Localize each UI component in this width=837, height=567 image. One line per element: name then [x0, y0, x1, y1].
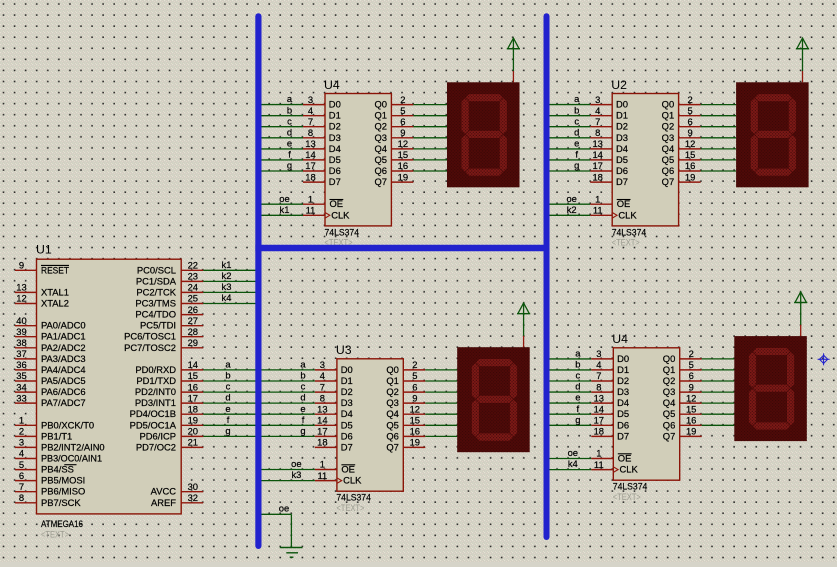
svg-text:18: 18 [305, 171, 315, 182]
svg-text:U3: U3 [336, 343, 352, 357]
svg-text:g: g [300, 425, 305, 436]
U1 pin PB7/SCK (8) [15, 502, 37, 504]
DS3 segment c [510, 399, 518, 437]
svg-text:25: 25 [188, 293, 198, 304]
U1 pin AREF (32) [181, 502, 203, 504]
svg-text:PA6/ADC6: PA6/ADC6 [41, 386, 86, 397]
svg-text:CLK: CLK [620, 464, 639, 475]
svg-text:D6: D6 [329, 165, 341, 176]
U1 pin PB3/OC0/AIN1 (4) [15, 458, 37, 460]
bus: left vertical [255, 16, 261, 546]
svg-text:15: 15 [686, 403, 696, 414]
U1 pin PC7/TOSC2 (29) [181, 347, 203, 349]
U2 pin Q2 (6) [679, 126, 701, 128]
svg-text:D4: D4 [329, 143, 341, 154]
U4 pin Q6 (16) [680, 424, 702, 426]
U1 pin AVCC (30) [181, 491, 203, 493]
wire net d : bus to U4 D3 [261, 126, 304, 137]
U4 pin Q4 (12) [391, 148, 413, 150]
U1 body [37, 259, 182, 514]
wire U3 Q3 to display [425, 402, 457, 404]
wire net g : bus to U4 D6 [261, 160, 304, 171]
svg-text:D1: D1 [341, 375, 353, 386]
svg-text:13: 13 [305, 138, 315, 149]
svg-text:d: d [300, 392, 305, 403]
svg-text:<TEXT>: <TEXT> [41, 530, 69, 541]
U3 pin Q6 (16) [403, 435, 425, 437]
svg-text:PD1/TXD: PD1/TXD [136, 375, 176, 386]
svg-text:PA0/ADC0: PA0/ADC0 [41, 320, 86, 331]
svg-text:12: 12 [410, 403, 420, 414]
U2 pin D2 (7) [590, 126, 612, 128]
svg-text:3: 3 [19, 437, 24, 448]
octal D flip-flop 74LS374 U2 [590, 78, 700, 249]
svg-text:17: 17 [592, 160, 602, 171]
U3 pin D7 (18) [315, 446, 337, 448]
U4 body [325, 94, 391, 226]
DS4 segment a [753, 348, 791, 356]
7-segment display DS4 [734, 336, 807, 441]
svg-text:24: 24 [188, 282, 198, 293]
svg-text:k3: k3 [222, 281, 232, 292]
ground symbol [280, 548, 303, 558]
svg-text:Q5: Q5 [662, 154, 675, 165]
svg-text:34: 34 [16, 381, 26, 392]
U4 pin Q0 (2) [680, 358, 702, 360]
svg-text:oe: oe [291, 458, 301, 469]
DS4 segment d [753, 422, 791, 430]
DS4 segment c [787, 388, 795, 426]
U4 body [613, 348, 679, 480]
wire net oe : bus to U3 OE [261, 458, 315, 469]
svg-text:g: g [574, 160, 579, 171]
U4 pin D4 (13) [303, 148, 325, 150]
svg-text:6: 6 [19, 470, 24, 481]
DS3 segment g [475, 395, 513, 403]
svg-text:Q0: Q0 [386, 364, 399, 375]
DS2 segment a [754, 94, 792, 102]
svg-text:74LS374: 74LS374 [612, 226, 647, 237]
svg-text:16: 16 [188, 381, 198, 392]
U4 pin Q1 (5) [680, 369, 702, 371]
svg-text:<TEXT>: <TEXT> [613, 492, 641, 503]
svg-text:4: 4 [596, 359, 601, 370]
svg-text:Q3: Q3 [386, 397, 399, 408]
svg-text:k3: k3 [291, 469, 301, 480]
wire U4 Q3 to display [702, 391, 735, 393]
wire U4 Q5 to display [702, 413, 735, 415]
svg-text:23: 23 [188, 271, 198, 282]
U4 pin D7 (18) [591, 435, 613, 437]
svg-text:U2: U2 [611, 78, 627, 92]
U3 pin Q7 (19) [403, 446, 425, 448]
svg-text:Q2: Q2 [374, 121, 387, 132]
U4 pin CLK (11) [303, 214, 325, 216]
U3 pin CLK (11) [315, 480, 337, 482]
origin / no-connect marker [818, 353, 830, 365]
wire net e : U1 PD4 to U3 D4 [203, 403, 315, 414]
svg-text:74LS374: 74LS374 [336, 492, 371, 503]
wire U4 Q4 to display [702, 402, 735, 404]
svg-text:PD4/OC1B: PD4/OC1B [130, 408, 176, 419]
svg-text:Q4: Q4 [663, 397, 676, 408]
svg-text:7: 7 [595, 116, 600, 127]
DS3 segment e [472, 399, 480, 437]
svg-text:D5: D5 [616, 154, 628, 165]
svg-text:8: 8 [596, 381, 601, 392]
DS4 segment g [753, 384, 791, 392]
svg-text:7: 7 [596, 370, 601, 381]
svg-text:CLK: CLK [331, 209, 350, 220]
U2 pin D6 (17) [590, 170, 612, 172]
svg-text:D2: D2 [616, 121, 628, 132]
svg-text:D7: D7 [341, 441, 353, 452]
svg-text:16: 16 [398, 160, 408, 171]
wire U4 Q6 to display [702, 424, 735, 426]
svg-text:AVCC: AVCC [151, 486, 177, 497]
svg-text:14: 14 [305, 149, 315, 160]
wire net k4 : U1 PC3 to left bus [203, 292, 256, 303]
DS3 segment a [475, 359, 513, 367]
DS2 segment e [750, 134, 758, 172]
svg-text:D7: D7 [329, 176, 341, 187]
U2 pin D1 (4) [590, 115, 612, 117]
svg-text:9: 9 [400, 127, 405, 138]
U4 pin D3 (8) [303, 137, 325, 139]
svg-text:14: 14 [592, 149, 602, 160]
wire net e : bus to U4 D4 [549, 392, 592, 403]
svg-text:18: 18 [594, 426, 604, 437]
wire net f : bus to U2 D5 [549, 149, 591, 160]
svg-text:b: b [287, 104, 292, 115]
svg-text:5: 5 [400, 105, 405, 116]
wire U4 Q0 to display [413, 104, 447, 106]
svg-text:7: 7 [308, 116, 313, 127]
U2 pin D3 (8) [590, 137, 612, 139]
wire net e : bus to U2 D4 [549, 138, 591, 149]
wire net k3 : bus to U3 CLK [261, 469, 315, 480]
U3 pin D6 (17) [315, 435, 337, 437]
svg-text:D4: D4 [616, 143, 628, 154]
DS4 segment f [749, 352, 757, 389]
svg-text:D0: D0 [617, 353, 629, 364]
octal D flip-flop 74LS374 U4 [303, 78, 413, 249]
svg-text:k2: k2 [567, 204, 577, 215]
U1 pin PA5/ADC5 (35) [15, 380, 37, 382]
svg-text:<TEXT>: <TEXT> [336, 503, 364, 514]
U3 pin D0 (3) [315, 369, 337, 371]
svg-text:19: 19 [410, 437, 420, 448]
wire net k2 : bus to U2 CLK [549, 204, 591, 215]
U1 pin PA6/ADC6 (34) [15, 391, 37, 393]
U4 pin Q4 (12) [680, 402, 702, 404]
DS4 body [734, 336, 807, 441]
svg-text:9: 9 [19, 260, 24, 271]
svg-text:74LS374: 74LS374 [325, 226, 360, 237]
U4 pin OE (1) [303, 203, 325, 205]
svg-text:1: 1 [320, 459, 325, 470]
svg-text:Q2: Q2 [663, 375, 676, 386]
svg-text:f: f [288, 149, 291, 160]
svg-text:22: 22 [188, 260, 198, 271]
wire net a : bus to U4 D0 [261, 93, 304, 104]
svg-text:Q1: Q1 [374, 110, 387, 121]
svg-text:f: f [575, 149, 578, 160]
svg-text:1: 1 [596, 448, 601, 459]
svg-text:8: 8 [320, 392, 325, 403]
svg-text:15: 15 [188, 370, 198, 381]
wire net c : bus to U4 D2 [261, 115, 304, 126]
svg-text:PB7/SCK: PB7/SCK [41, 497, 81, 508]
wire net g : U1 PD6 to U3 D6 [203, 425, 315, 436]
svg-text:PD7/OC2: PD7/OC2 [136, 441, 176, 452]
svg-text:20: 20 [188, 426, 198, 437]
DS3 segment f [472, 363, 480, 400]
U4 pin Q1 (5) [391, 115, 413, 117]
svg-text:D6: D6 [617, 419, 629, 430]
svg-text:PB3/OC0/AIN1: PB3/OC0/AIN1 [41, 453, 102, 464]
svg-text:2: 2 [689, 348, 694, 359]
wire U4 Q0 to display [702, 358, 735, 360]
svg-text:3: 3 [320, 359, 325, 370]
svg-text:D2: D2 [617, 375, 629, 386]
U2 pin OE (1) [590, 203, 612, 205]
svg-text:8: 8 [308, 127, 313, 138]
svg-text:c: c [226, 381, 231, 392]
svg-text:e: e [574, 138, 579, 149]
U1 pin PC2/TCK (24) [181, 291, 203, 293]
svg-text:b: b [575, 359, 580, 370]
svg-text:g: g [287, 160, 292, 171]
svg-text:oe: oe [566, 193, 576, 204]
svg-text:D2: D2 [329, 121, 341, 132]
svg-text:38: 38 [16, 337, 26, 348]
svg-text:D0: D0 [341, 364, 353, 375]
svg-text:4: 4 [308, 105, 313, 116]
svg-text:D6: D6 [616, 165, 628, 176]
U1 pin PD5/OC1A (19) [181, 424, 203, 426]
svg-text:Q6: Q6 [662, 165, 675, 176]
wire net f : bus to U4 D5 [549, 403, 592, 414]
U4 pin CLK (11) [591, 469, 613, 471]
svg-text:PB1/T1: PB1/T1 [41, 430, 72, 441]
svg-text:a: a [225, 359, 231, 370]
DS1 segment g [465, 131, 503, 139]
svg-text:2: 2 [19, 426, 24, 437]
svg-text:f: f [302, 414, 305, 425]
U1 pin PD2/INT0 (16) [181, 391, 203, 393]
svg-text:4: 4 [595, 105, 600, 116]
7-segment display DS3 [457, 347, 530, 452]
svg-text:Q5: Q5 [663, 408, 676, 419]
svg-text:19: 19 [686, 426, 696, 437]
U1 pin PA2/ADC2 (38) [15, 347, 37, 349]
DS1 segment a [465, 94, 503, 102]
svg-text:17: 17 [188, 392, 198, 403]
svg-text:PC5/TDI: PC5/TDI [140, 320, 176, 331]
svg-text:Q7: Q7 [662, 176, 675, 187]
U2 pin Q5 (15) [679, 159, 701, 161]
svg-text:13: 13 [16, 282, 26, 293]
U2 pin D0 (3) [590, 104, 612, 106]
wire U3 Q6 to display [425, 435, 457, 437]
svg-text:PA3/ADC3: PA3/ADC3 [41, 353, 86, 364]
svg-text:1: 1 [595, 193, 600, 204]
U2 pin Q4 (12) [679, 148, 701, 150]
svg-text:oe: oe [279, 503, 289, 514]
svg-text:12: 12 [16, 293, 26, 304]
wire U2 Q2 to display [701, 126, 737, 128]
DS3 dither texture [457, 347, 530, 452]
DS3 segment d [475, 433, 513, 441]
U3 pin D1 (4) [315, 380, 337, 382]
U1 pin PC5/TDI (27) [181, 325, 203, 327]
svg-text:18: 18 [592, 171, 602, 182]
svg-text:f: f [576, 403, 579, 414]
U1 pin PA4/ADC4 (36) [15, 369, 37, 371]
svg-text:<TEXT>: <TEXT> [612, 238, 640, 249]
U4 pin D1 (4) [591, 369, 613, 371]
octal D flip-flop 74LS374 U3 [315, 343, 425, 514]
U3 pin D5 (14) [315, 424, 337, 426]
wire U4 Q1 to display [702, 369, 735, 371]
U4 pin D4 (13) [591, 402, 613, 404]
svg-text:19: 19 [685, 171, 695, 182]
svg-text:14: 14 [594, 403, 604, 414]
svg-text:Q0: Q0 [663, 353, 676, 364]
U3 pin D4 (13) [315, 413, 337, 415]
U4 pin Q7 (19) [391, 181, 413, 183]
wire U4 Q2 to display [413, 126, 447, 128]
svg-text:e: e [575, 392, 580, 403]
svg-text:2: 2 [412, 359, 417, 370]
svg-text:13: 13 [594, 392, 604, 403]
U1 pin PC0/SCL (22) [181, 269, 203, 271]
svg-text:Q4: Q4 [374, 143, 387, 154]
wire net b : U1 PD1 to U3 D1 [203, 370, 315, 381]
U4 pin Q0 (2) [391, 104, 413, 106]
svg-text:8: 8 [595, 127, 600, 138]
svg-text:33: 33 [16, 392, 26, 403]
U4 pin OE (1) [591, 458, 613, 460]
svg-text:PA4/ADC4: PA4/ADC4 [41, 364, 86, 375]
svg-text:39: 39 [16, 326, 26, 337]
svg-text:PC7/TOSC2: PC7/TOSC2 [124, 342, 176, 353]
svg-text:CLK: CLK [618, 209, 637, 220]
svg-text:Q0: Q0 [662, 99, 675, 110]
DS1 segment d [465, 168, 503, 176]
DS2 body [736, 82, 809, 187]
svg-text:Q4: Q4 [662, 143, 675, 154]
svg-text:4: 4 [320, 370, 325, 381]
svg-text:PD6/ICP: PD6/ICP [140, 430, 176, 441]
U4 pin Q3 (9) [391, 137, 413, 139]
svg-text:oe: oe [279, 193, 289, 204]
wire net g : bus to U2 D6 [549, 160, 591, 171]
svg-text:c: c [301, 381, 306, 392]
svg-text:D5: D5 [329, 154, 341, 165]
U4 pin D2 (7) [591, 380, 613, 382]
svg-text:k4: k4 [568, 458, 578, 469]
svg-text:14: 14 [317, 415, 327, 426]
U4 pin D6 (17) [303, 170, 325, 172]
wire net f : U1 PD5 to U3 D5 [203, 414, 315, 425]
svg-text:D1: D1 [617, 364, 629, 375]
svg-text:b: b [225, 370, 230, 381]
svg-text:74LS374: 74LS374 [613, 481, 648, 492]
U2 pin Q7 (19) [679, 181, 701, 183]
U1 pin PC1/SDA (23) [181, 280, 203, 282]
svg-text:Q6: Q6 [374, 165, 387, 176]
wire U2 Q5 to display [701, 159, 737, 161]
svg-text:27: 27 [188, 315, 198, 326]
U1 pin PB5/MOSI (6) [15, 480, 37, 482]
U4 pin D3 (8) [591, 391, 613, 393]
svg-text:30: 30 [188, 481, 198, 492]
U4 pin D7 (18) [303, 181, 325, 183]
svg-text:ATMEGA16: ATMEGA16 [41, 518, 83, 529]
svg-text:Q3: Q3 [663, 386, 676, 397]
svg-text:8: 8 [19, 492, 24, 503]
svg-text:11: 11 [306, 205, 316, 216]
svg-text:PC0/SCL: PC0/SCL [137, 264, 176, 275]
svg-text:D4: D4 [617, 397, 629, 408]
svg-text:5: 5 [689, 359, 694, 370]
svg-text:6: 6 [412, 381, 417, 392]
svg-text:d: d [575, 381, 580, 392]
U3 body [337, 359, 403, 491]
svg-text:3: 3 [308, 94, 313, 105]
wire U2 Q6 to display [701, 170, 737, 172]
wire U4 Q4 to display [413, 148, 447, 150]
DS1 segment b [499, 98, 507, 135]
wire net f : bus to U4 D5 [261, 149, 304, 160]
7-segment display DS1 [447, 82, 520, 187]
svg-text:k2: k2 [222, 270, 232, 281]
DS1 segment f [461, 98, 469, 135]
U3 pin Q1 (5) [403, 380, 425, 382]
wire net oe : bus to U2 OE [549, 193, 591, 204]
power arrow (VCC) above DS3 [517, 303, 530, 347]
wire U4 Q6 to display [413, 170, 447, 172]
svg-text:2: 2 [687, 94, 692, 105]
U1 pin PB1/T1 (2) [15, 435, 37, 437]
svg-text:PD3/INT1: PD3/INT1 [135, 397, 176, 408]
svg-text:Q6: Q6 [663, 419, 676, 430]
svg-text:28: 28 [188, 326, 198, 337]
7-segment display DS2 [736, 82, 809, 187]
svg-text:Q3: Q3 [374, 132, 387, 143]
svg-text:1: 1 [308, 193, 313, 204]
svg-text:5: 5 [412, 370, 417, 381]
svg-text:Q0: Q0 [374, 99, 387, 110]
svg-text:17: 17 [594, 415, 604, 426]
U2 pin Q3 (9) [679, 137, 701, 139]
svg-text:PD2/INT0: PD2/INT0 [135, 386, 176, 397]
U1 pin PD7/OC2 (21) [181, 446, 203, 448]
svg-text:16: 16 [686, 415, 696, 426]
svg-text:32: 32 [188, 492, 198, 503]
svg-text:U4: U4 [324, 78, 340, 92]
U4 pin D0 (3) [303, 104, 325, 106]
DS1 body [447, 82, 520, 187]
svg-text:Q7: Q7 [374, 176, 387, 187]
U2 pin D5 (14) [590, 159, 612, 161]
U4 pin Q5 (15) [680, 413, 702, 415]
wire net oe : bus to U4 OE [549, 447, 592, 458]
svg-text:D0: D0 [329, 99, 341, 110]
svg-text:12: 12 [685, 138, 695, 149]
